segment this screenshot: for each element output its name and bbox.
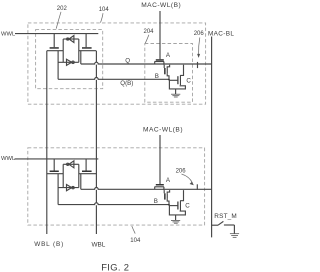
- svg-text:B: B: [154, 198, 158, 205]
- svg-text:Q(B): Q(B): [120, 80, 133, 87]
- svg-text:104: 104: [99, 7, 110, 13]
- svg-text:RST_M: RST_M: [214, 213, 237, 220]
- svg-text:104: 104: [130, 238, 141, 244]
- svg-text:202: 202: [57, 6, 68, 12]
- svg-text:FIG. 2: FIG. 2: [101, 261, 129, 272]
- svg-text:Q: Q: [125, 58, 130, 65]
- svg-text:C: C: [185, 203, 190, 210]
- svg-text:WBL (B): WBL (B): [34, 241, 64, 248]
- svg-text:WWL: WWL: [1, 156, 16, 162]
- svg-text:MAC-BL: MAC-BL: [208, 30, 234, 37]
- svg-text:A: A: [166, 52, 171, 59]
- svg-text:206: 206: [194, 31, 205, 37]
- svg-text:204: 204: [144, 29, 155, 35]
- svg-text:206: 206: [176, 168, 187, 174]
- svg-text:MAC-WL(B): MAC-WL(B): [141, 2, 181, 9]
- svg-text:MAC-WL(B): MAC-WL(B): [143, 126, 183, 133]
- svg-text:C: C: [186, 77, 191, 84]
- svg-text:B: B: [155, 73, 159, 80]
- svg-text:WBL: WBL: [92, 242, 106, 249]
- svg-text:A: A: [166, 177, 171, 184]
- svg-text:WWL: WWL: [1, 32, 16, 38]
